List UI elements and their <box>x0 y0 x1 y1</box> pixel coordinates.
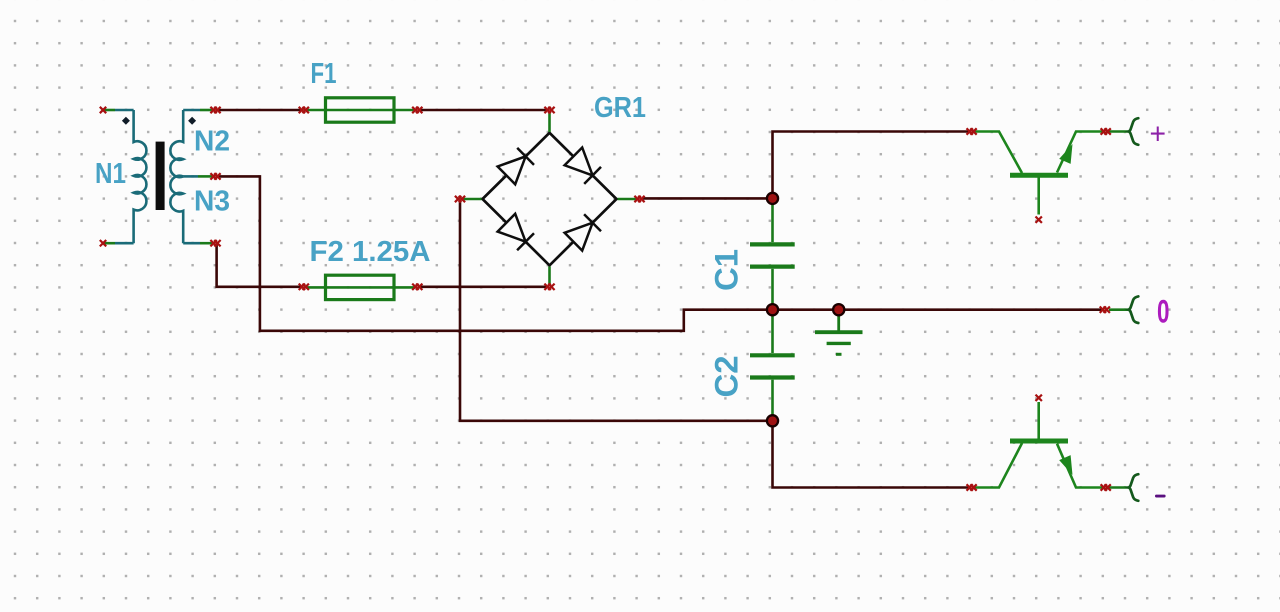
transformer TR1 core <box>156 142 165 210</box>
diode D4 (bottom-right) of GR1 <box>565 214 601 250</box>
label zero terminal <box>1157 293 1170 329</box>
bridge GR1 right pin stub <box>618 198 638 201</box>
transformer TR1 secondary winding N3 <box>170 176 212 244</box>
bridge GR1 left pin stub <box>462 198 482 201</box>
label F2 1.25A (fuse designator and rating) <box>310 236 431 268</box>
pin marker: TR1 N3 bottom pin / wire <box>210 240 220 246</box>
diode D3 (left-bottom) of GR1 <box>498 214 534 250</box>
label C1 (capacitor designator, rotated) <box>709 249 745 291</box>
wire: bridge plus (right vertex) to C1 top junction <box>642 197 771 200</box>
pin marker: F2 right pin / wire <box>412 284 422 290</box>
wire: F2 right pin to bridge bottom pin <box>419 285 548 288</box>
pin marker: TR1 primary top pin <box>100 107 106 113</box>
ground symbol <box>815 313 863 354</box>
terminal connector plus output <box>1109 118 1138 145</box>
diode D2 (top-right) of GR1 <box>565 148 601 184</box>
transformer polarity dot (secondary) <box>188 117 196 125</box>
svg-text:GR1: GR1 <box>594 92 646 124</box>
wire: bridge minus (left vertex) down and right to C2 bottom junction <box>460 201 770 421</box>
pin marker: GR1 right (plus) pin / wire <box>634 196 644 202</box>
pin marker: 0 rail to 0 terminal <box>1100 307 1110 313</box>
terminal connector minus output <box>1109 474 1138 501</box>
fuse F1 <box>306 98 415 122</box>
bridge GR1 bottom pin stub <box>548 266 551 285</box>
pin marker: GR1 left (minus) pin / wire <box>455 196 465 202</box>
junction: 0 rail at C1/C2 midpoint <box>767 304 778 315</box>
svg-text:N2: N2 <box>194 126 230 158</box>
pin marker: F1 right pin / wire <box>412 107 422 113</box>
junction: 0 rail at ground symbol <box>833 304 844 315</box>
label N3 (secondary winding) <box>194 186 230 218</box>
label N1 (primary winding) <box>95 158 126 190</box>
wire: 0 rail from center junction to 0 terminal <box>774 308 1102 311</box>
pin marker: GR1 bottom (AC) pin / wire <box>544 284 554 290</box>
label N2 (secondary winding) <box>194 126 230 158</box>
junction: bridge minus / C2 bottom / V2 feed <box>767 415 778 426</box>
bridge GR1 top pin stub <box>548 111 551 132</box>
pin marker: V2 collector pin / wire <box>967 484 977 490</box>
pin marker: V1 collector pin / wire <box>967 128 977 134</box>
svg-text:F1: F1 <box>311 58 337 90</box>
pin marker: V2 base (open) <box>1036 395 1042 401</box>
label F1 (fuse designator) <box>311 58 337 90</box>
label minus terminal <box>1155 495 1166 498</box>
transistor V2 (lower NPN pass transistor) <box>972 402 1103 488</box>
diode D1 (left-top) of GR1 <box>498 148 534 184</box>
label GR1 (bridge rectifier designator) <box>594 92 646 124</box>
transformer TR1 secondary winding N2 <box>170 110 212 177</box>
capacitor C1 <box>750 202 795 306</box>
svg-text:C1: C1 <box>709 249 745 291</box>
wire: N2 top pin to F1 left pin <box>217 109 302 112</box>
pin marker: TR1 N2 top pin / wire <box>210 107 220 113</box>
junction: bridge plus / C1 top / V1 feed <box>767 193 778 204</box>
terminal connector zero (0) output <box>1109 296 1138 323</box>
pin marker: TR1 center tap pin / wire <box>210 173 220 179</box>
wire: C1 top junction up and right to transistor V1 collector <box>773 132 970 197</box>
transformer TR1 primary winding N1 <box>104 110 146 243</box>
svg-text:0: 0 <box>1157 293 1170 329</box>
wire: F1 right pin to bridge top pin <box>419 109 548 112</box>
label C2 (capacitor designator, rotated) <box>709 356 745 398</box>
svg-text:C2: C2 <box>709 356 745 398</box>
svg-text:N1: N1 <box>95 158 126 190</box>
bridge rectifier GR1 diamond outline <box>483 133 617 266</box>
pin marker: V2 emitter to minus terminal <box>1101 484 1111 490</box>
svg-text:N3: N3 <box>194 186 230 218</box>
pin marker: GR1 top (AC) pin / wire <box>544 107 554 113</box>
svg-text:F2 1.25A: F2 1.25A <box>310 236 431 268</box>
transformer polarity dot (primary) <box>122 117 130 125</box>
wire: transformer tap N2/N3 to 0 rail (steps down and right to C1/C2 midpoint) <box>218 176 771 330</box>
svg-text:+: + <box>1150 118 1167 151</box>
transistor V1 (upper NPN pass transistor) <box>972 132 1103 215</box>
label plus terminal <box>1150 118 1167 151</box>
pin marker: V1 emitter to plus terminal <box>1101 128 1111 134</box>
pin marker: TR1 primary bottom pin <box>100 240 106 246</box>
wire: N3 bottom pin down to F2 left pin <box>217 245 302 287</box>
fuse F2 <box>306 275 415 299</box>
pin marker: F2 left pin / wire <box>299 284 309 290</box>
wire: C2 bottom junction down and right to transistor V2 collector <box>773 423 970 488</box>
pin marker: V1 base (open) <box>1036 217 1042 223</box>
capacitor C2 <box>750 313 795 417</box>
pin marker: F1 left pin / wire <box>299 107 309 113</box>
